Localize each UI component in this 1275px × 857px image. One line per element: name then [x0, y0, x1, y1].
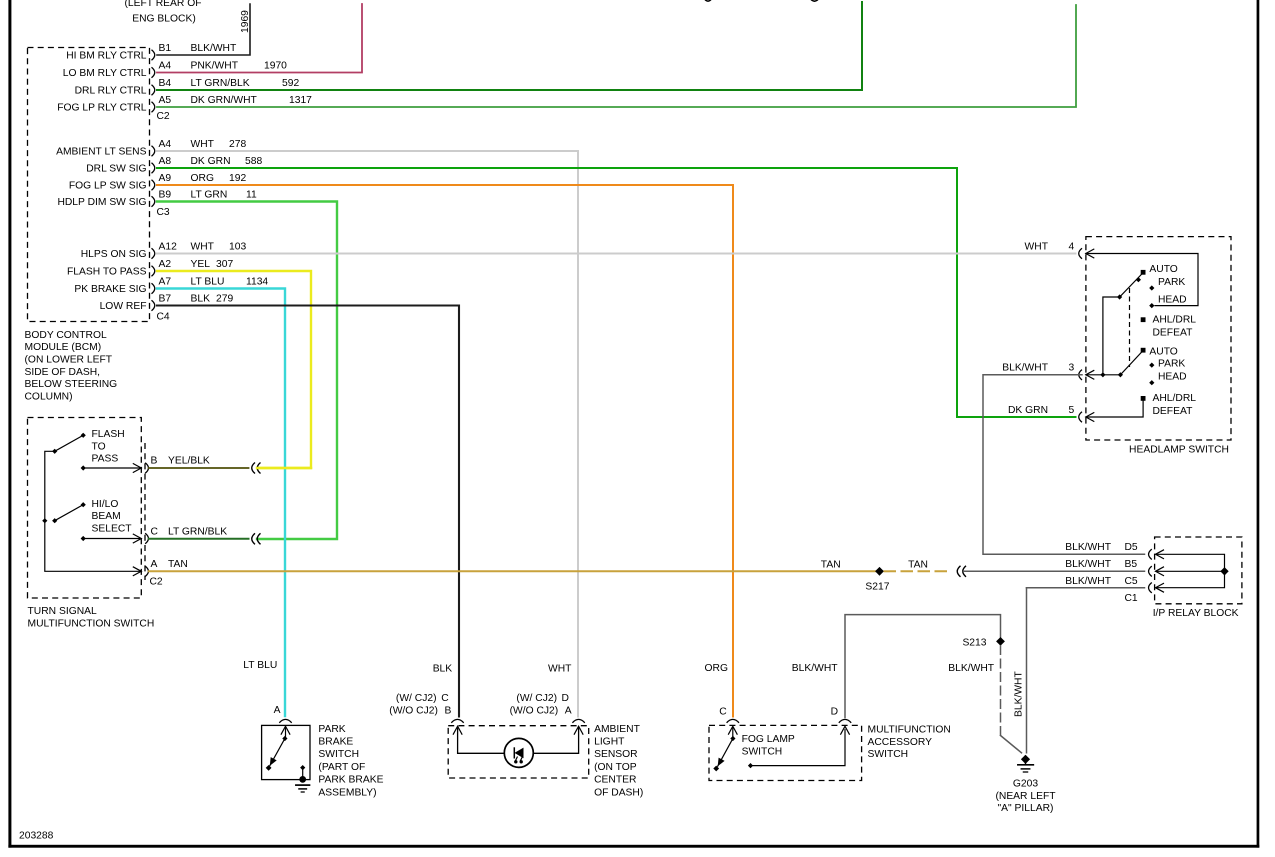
svg-text:SIDE OF DASH,: SIDE OF DASH, [25, 367, 101, 378]
multifunction accessory switch box [709, 725, 862, 780]
svg-text:(PART OF: (PART OF [318, 762, 365, 773]
svg-text:203288: 203288 [19, 831, 54, 842]
svg-text:HI/LO: HI/LO [92, 499, 119, 510]
wire A9 ORG 192 to fog lamp switch [157, 185, 733, 717]
svg-text:AMBIENT LT SENS: AMBIENT LT SENS [56, 147, 147, 158]
svg-text:BRAKE: BRAKE [318, 737, 353, 748]
svg-text:SENSOR: SENSOR [594, 749, 638, 760]
svg-text:A2: A2 [159, 259, 172, 270]
svg-text:C: C [719, 707, 727, 718]
svg-text:3: 3 [1069, 363, 1075, 374]
svg-text:A5: A5 [159, 95, 172, 106]
BCM pin A2 YEL [67, 259, 234, 278]
svg-text:A4: A4 [159, 61, 172, 72]
svg-text:BLK/WHT: BLK/WHT [191, 43, 237, 54]
turn signal pin B [145, 456, 210, 474]
headlamp pin 5 [1008, 405, 1094, 422]
svg-text:A7: A7 [159, 277, 172, 288]
wire LT GRN/BLK pin C to coupling [149, 538, 249, 540]
svg-text:A9: A9 [159, 173, 172, 184]
svg-text:BLK/WHT: BLK/WHT [1014, 671, 1025, 717]
wire BLK/WHT pin D to splice S213 [845, 615, 1001, 718]
svg-text:(LEFT REAR OF: (LEFT REAR OF [124, 0, 201, 9]
svg-text:BLK/WHT: BLK/WHT [1065, 542, 1111, 553]
svg-text:D5: D5 [1125, 542, 1138, 553]
wire A8 DK GRN 588 to headlamp switch pin 5 [157, 168, 1076, 417]
svg-text:278: 278 [229, 139, 246, 150]
page number 203288 [19, 831, 54, 842]
wire BLK/WHT C5 to ground G203 [1027, 588, 1145, 753]
svg-text:YEL/BLK: YEL/BLK [168, 456, 210, 467]
label TAN right of S217 [908, 559, 928, 570]
svg-text:HEADLAMP SWITCH: HEADLAMP SWITCH [1129, 444, 1229, 455]
svg-text:WHT: WHT [191, 242, 215, 253]
svg-text:C2: C2 [150, 576, 163, 587]
flash to pass contact to pin B [81, 463, 142, 472]
BCM connector label C4 [157, 311, 170, 322]
svg-text:FLASH TO PASS: FLASH TO PASS [67, 267, 147, 278]
svg-text:LOW REF: LOW REF [100, 301, 147, 312]
wire YEL/BLK pin B to coupling [149, 467, 249, 469]
svg-text:FOG LAMP: FOG LAMP [742, 734, 795, 745]
BCM pin A12 WHT [81, 242, 247, 261]
label BLK/WHT vertical [1014, 671, 1025, 717]
svg-text:D: D [831, 707, 838, 718]
svg-text:HEAD: HEAD [1158, 372, 1187, 383]
svg-text:ENG BLOCK): ENG BLOCK) [132, 14, 196, 25]
svg-text:D: D [562, 693, 569, 704]
svg-text:BLK: BLK [191, 294, 211, 305]
svg-text:DRL RLY CTRL: DRL RLY CTRL [75, 86, 147, 97]
headlamp switch section 1 pivot wire [1103, 297, 1120, 375]
BCM pin B1 BLK/WHT [66, 43, 237, 62]
headlamp switch section 2 blade [1120, 352, 1142, 375]
wire B7 BLK 279 to ambient light sensor [157, 306, 459, 717]
headlamp pin 4 internal wire to HEAD contact [1086, 254, 1198, 306]
svg-text:TAN: TAN [908, 559, 928, 570]
svg-text:1969: 1969 [240, 10, 251, 33]
page border bottom [8, 845, 1259, 848]
svg-text:5: 5 [1069, 405, 1075, 416]
I/P relay block label [1153, 608, 1239, 619]
svg-text:C: C [151, 526, 159, 537]
svg-text:FOG LP SW SIG: FOG LP SW SIG [69, 181, 147, 192]
svg-text:LT BLU: LT BLU [191, 277, 225, 288]
svg-text:BLK/WHT: BLK/WHT [1002, 363, 1048, 374]
svg-text:C4: C4 [157, 311, 170, 322]
svg-text:AUTO: AUTO [1149, 347, 1177, 358]
BCM pin A4 WHT [56, 139, 246, 158]
I/P relay pin D5 [1065, 542, 1164, 559]
hi/lo beam contact to pin C [81, 534, 142, 543]
headlamp switch section 1 blade [1117, 274, 1142, 300]
svg-text:OF DASH): OF DASH) [594, 787, 643, 798]
svg-text:LT BLU: LT BLU [243, 660, 277, 671]
wire A4 WHT 278 to ambient light sensor [157, 151, 578, 717]
label WHT [548, 664, 572, 675]
turn signal switch connector face line [144, 443, 146, 580]
svg-text:ACCESSORY: ACCESSORY [868, 737, 933, 748]
svg-text:A12: A12 [159, 242, 178, 253]
fog lamp switch blade [713, 736, 735, 772]
ambient sensor pin D/A labels [510, 693, 572, 716]
label BLK/WHT at S213 wire [948, 663, 994, 674]
wire B4 LT GRN/BLK 592 [157, 2, 862, 90]
svg-text:FOG LP RLY CTRL: FOG LP RLY CTRL [57, 103, 147, 114]
headlamp pin 3 internal wire [1086, 372, 1123, 377]
headlamp switch box [1086, 237, 1231, 440]
svg-text:BEAM: BEAM [92, 511, 121, 522]
BCM pin A7 LT BLU [74, 277, 268, 296]
park brake switch blade [266, 736, 288, 771]
wire circuit number 1969 [240, 10, 251, 33]
svg-text:A: A [565, 705, 572, 716]
svg-text:A: A [151, 559, 158, 570]
svg-text:PNK/WHT: PNK/WHT [191, 61, 239, 72]
coupling on hi/lo beam wire [252, 533, 261, 544]
svg-text:592: 592 [282, 78, 299, 89]
BCM pin B9 LT GRN [57, 190, 257, 209]
headlamp switch label [1129, 444, 1229, 455]
svg-text:SWITCH: SWITCH [318, 749, 359, 760]
page border left [8, 0, 11, 848]
svg-text:BLK/WHT: BLK/WHT [1065, 559, 1111, 570]
fog lamp switch label [742, 734, 795, 758]
I/P relay connector label C1 [1125, 593, 1138, 604]
svg-text:DK GRN/WHT: DK GRN/WHT [191, 95, 258, 106]
svg-text:B7: B7 [159, 294, 172, 305]
BCM connector box [28, 48, 150, 322]
svg-text:LT GRN/BLK: LT GRN/BLK [191, 78, 250, 89]
svg-text:LIGHT: LIGHT [594, 737, 625, 748]
turn signal pin A [145, 559, 188, 577]
svg-text:TURN SIGNAL: TURN SIGNAL [28, 606, 98, 617]
svg-text:C: C [441, 693, 449, 704]
fog lamp pin D cap [831, 707, 852, 723]
svg-text:PARK BRAKE: PARK BRAKE [318, 775, 383, 786]
svg-text:MODULE (BCM): MODULE (BCM) [25, 342, 102, 353]
headlamp switch section 1 contacts [1141, 264, 1197, 339]
label LT BLU [243, 660, 277, 671]
svg-text:(W/O CJ2): (W/O CJ2) [389, 705, 438, 716]
wire YEL after coupling [258, 467, 312, 469]
svg-text:I/P RELAY BLOCK: I/P RELAY BLOCK [1153, 608, 1239, 619]
svg-text:BELOW STEERING: BELOW STEERING [25, 379, 118, 390]
svg-text:MULTIFUNCTION SWITCH: MULTIFUNCTION SWITCH [28, 618, 155, 629]
svg-text:C3: C3 [157, 207, 170, 218]
BCM label [25, 330, 118, 403]
ground G203 symbol [1018, 755, 1033, 772]
ambient light sensor label [594, 724, 643, 799]
ambient sensor pin D/A cap [572, 719, 584, 722]
turn signal switch box [28, 418, 142, 599]
BCM connector label C2 [157, 111, 170, 122]
svg-text:FLASH: FLASH [92, 429, 125, 440]
cut-off title glyph 1 [705, 0, 711, 1]
svg-text:4: 4 [1069, 241, 1075, 252]
svg-text:A8: A8 [159, 156, 172, 167]
svg-text:AHL/DRL: AHL/DRL [1153, 314, 1197, 325]
park brake connector cap pin A [274, 705, 292, 723]
fog lamp pin C cap [719, 707, 739, 723]
wire A2 YEL 307 [157, 271, 311, 468]
BCM pin A5 DK GRN/WHT [57, 95, 312, 114]
svg-text:B4: B4 [159, 78, 172, 89]
wire B1 BLK/WHT to engine block [157, 4, 250, 55]
coupling on tan wire [957, 566, 966, 577]
I/P relay pin C5 [1065, 576, 1164, 593]
svg-text:PARK: PARK [1158, 359, 1185, 370]
svg-text:AUTO: AUTO [1149, 264, 1177, 275]
svg-text:PARK: PARK [1158, 277, 1185, 288]
wire BLK/WHT headlamp pin 3 to I/P relay block D5 [983, 375, 1145, 555]
wire diagonal to ground G203 [1001, 736, 1022, 753]
svg-text:AHL/DRL: AHL/DRL [1153, 393, 1197, 404]
svg-text:588: 588 [245, 156, 262, 167]
ambient light sensor box [448, 726, 589, 778]
svg-text:B: B [445, 705, 452, 716]
flash to pass switch blade [52, 429, 125, 465]
svg-text:192: 192 [229, 173, 246, 184]
svg-text:BLK/WHT: BLK/WHT [792, 663, 838, 674]
svg-text:C1: C1 [1125, 593, 1138, 604]
svg-text:HI BM RLY CTRL: HI BM RLY CTRL [66, 51, 147, 62]
turn signal pin C [145, 526, 227, 543]
turn signal connector label C2 [150, 576, 163, 587]
svg-text:BLK/WHT: BLK/WHT [948, 663, 994, 674]
headlamp pin 3 [1002, 363, 1094, 380]
svg-text:B1: B1 [159, 43, 172, 54]
ground G203 label [995, 779, 1056, 815]
svg-text:S217: S217 [865, 582, 889, 593]
svg-text:DEFEAT: DEFEAT [1153, 327, 1194, 338]
svg-text:SELECT: SELECT [92, 523, 133, 534]
svg-text:C5: C5 [1125, 576, 1138, 587]
svg-text:279: 279 [216, 294, 233, 305]
svg-text:LT GRN: LT GRN [191, 190, 228, 201]
park brake switch box [262, 725, 310, 779]
svg-text:A: A [274, 705, 281, 716]
I/P relay block box [1155, 537, 1242, 604]
svg-text:HDLP DIM SW SIG: HDLP DIM SW SIG [57, 197, 146, 208]
label BLK [433, 664, 453, 675]
svg-text:1317: 1317 [289, 95, 312, 106]
headlamp AHL/DRL defeat wire to pin 5 [1086, 401, 1143, 418]
svg-text:SWITCH: SWITCH [868, 749, 909, 760]
BCM pin B4 LT GRN/BLK [75, 78, 300, 97]
wire TAN dashed after S217 [885, 570, 952, 572]
svg-text:(NEAR LEFT: (NEAR LEFT [995, 791, 1056, 802]
park brake switch label [318, 724, 383, 799]
fog lamp switch arrow C [728, 726, 737, 737]
ambient sensor pin C/B labels [389, 693, 451, 716]
svg-text:LT GRN/BLK: LT GRN/BLK [168, 526, 227, 537]
turn signal switch label [28, 606, 155, 629]
svg-text:BLK/WHT: BLK/WHT [1065, 576, 1111, 587]
label BLK/WHT at multifunction switch [792, 663, 838, 674]
splice S213 [962, 637, 1004, 648]
page border right [1257, 0, 1260, 848]
multifunction accessory switch label [868, 725, 951, 761]
svg-text:TAN: TAN [168, 559, 188, 570]
park brake ground symbol [296, 785, 310, 792]
svg-text:PASS: PASS [92, 454, 119, 465]
wire A4 PNK/WHT 1970 [157, 4, 362, 73]
svg-text:AMBIENT: AMBIENT [594, 724, 640, 735]
svg-text:HLPS ON SIG: HLPS ON SIG [81, 249, 147, 260]
svg-text:S213: S213 [962, 637, 986, 648]
label TAN left of S217 [821, 559, 841, 570]
svg-text:(W/ CJ2): (W/ CJ2) [396, 693, 437, 704]
svg-text:WHT: WHT [1025, 241, 1049, 252]
ambient light sensor photodiode [504, 738, 533, 767]
wire BLK/WHT dashed S213 to ground [1000, 646, 1002, 736]
svg-text:B5: B5 [1125, 559, 1138, 570]
svg-text:1970: 1970 [264, 61, 287, 72]
wire B9 LT GRN 11 [157, 202, 337, 540]
svg-text:WHT: WHT [548, 664, 572, 675]
svg-text:BLK: BLK [433, 664, 453, 675]
svg-text:A4: A4 [159, 139, 172, 150]
svg-text:TAN: TAN [821, 559, 841, 570]
BCM pin B7 BLK [100, 294, 234, 313]
svg-text:ASSEMBLY): ASSEMBLY) [318, 787, 376, 798]
svg-text:YEL: YEL [191, 259, 211, 270]
switch common to pin A [45, 451, 142, 576]
svg-text:(W/O CJ2): (W/O CJ2) [510, 705, 559, 716]
hi/lo beam select switch blade [42, 499, 132, 535]
headlamp switch section 2 contacts [1141, 347, 1197, 418]
wire A5 DK GRN/WHT 1317 [157, 5, 1076, 107]
svg-text:DK GRN: DK GRN [1008, 405, 1048, 416]
svg-text:SWITCH: SWITCH [742, 747, 783, 758]
svg-text:103: 103 [229, 242, 246, 253]
BCM connector label C3 [157, 207, 170, 218]
cut-off title glyph 2 [811, 0, 818, 1]
label (LEFT REAR OF ENG BLOCK) [124, 0, 201, 25]
BCM pin A4 PNK/WHT [63, 61, 287, 80]
park brake ground contact [299, 765, 306, 783]
svg-text:"A" PILLAR): "A" PILLAR) [998, 803, 1054, 814]
svg-text:G203: G203 [1013, 779, 1038, 790]
BCM pin A8 DK GRN [86, 156, 262, 175]
svg-text:ORG: ORG [705, 663, 728, 674]
headlamp pin 4 [1025, 241, 1095, 258]
svg-text:WHT: WHT [191, 139, 215, 150]
svg-text:DRL SW SIG: DRL SW SIG [86, 164, 146, 175]
svg-text:(W/ CJ2): (W/ CJ2) [516, 693, 557, 704]
svg-text:B9: B9 [159, 190, 172, 201]
headlamp mechanical link [1129, 288, 1131, 367]
svg-text:LO BM RLY CTRL: LO BM RLY CTRL [63, 68, 147, 79]
svg-text:TO: TO [92, 441, 106, 452]
svg-text:(ON LOWER LEFT: (ON LOWER LEFT [25, 355, 113, 366]
svg-text:MULTIFUNCTION: MULTIFUNCTION [868, 725, 951, 736]
svg-text:DEFEAT: DEFEAT [1153, 406, 1194, 417]
svg-text:BODY CONTROL: BODY CONTROL [25, 330, 107, 341]
svg-text:CENTER: CENTER [594, 775, 636, 786]
svg-text:DK GRN: DK GRN [191, 156, 231, 167]
ambient sensor internal wiring [453, 726, 583, 753]
svg-text:ORG: ORG [191, 173, 214, 184]
fog lamp switch D contact [748, 726, 850, 768]
park brake switch arrow [281, 726, 290, 737]
wire A12 WHT 103 to headlamp switch pin 4 [157, 253, 1076, 255]
svg-text:C2: C2 [157, 111, 170, 122]
wire A7 LT BLU 1134 to park brake switch [157, 289, 285, 717]
splice S217 [865, 567, 889, 593]
svg-text:11: 11 [246, 190, 257, 201]
coupling on flash-to-pass wire [252, 463, 261, 474]
svg-text:(ON TOP: (ON TOP [594, 762, 637, 773]
label ORG [705, 663, 728, 674]
wire BLK/WHT coupling to I/P relay block pin B5 [964, 570, 1145, 572]
ambient sensor pin C/B cap [451, 719, 463, 722]
I/P relay pin B5 [1065, 559, 1164, 576]
svg-text:1134: 1134 [246, 277, 268, 288]
BCM pin A9 ORG [69, 173, 247, 192]
svg-text:PARK: PARK [318, 724, 345, 735]
svg-text:B: B [151, 456, 158, 467]
I/P relay internal wiring [1156, 554, 1229, 587]
svg-text:COLUMN): COLUMN) [25, 391, 73, 402]
svg-text:307: 307 [216, 259, 233, 270]
svg-text:HEAD: HEAD [1158, 295, 1187, 306]
svg-text:PK BRAKE SIG: PK BRAKE SIG [74, 284, 146, 295]
wire TAN pin A to splice S217 [149, 570, 876, 572]
